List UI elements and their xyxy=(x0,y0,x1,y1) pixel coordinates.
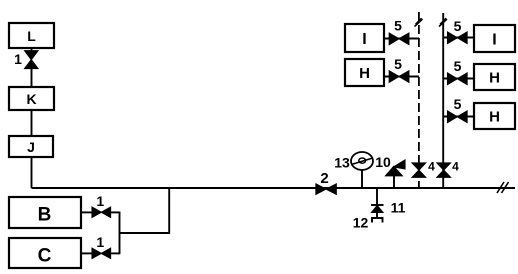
svg-text:B: B xyxy=(38,205,52,226)
box I (left column) xyxy=(345,24,384,52)
valve 5 (H right row 2) xyxy=(448,58,468,85)
drain funnel 12 xyxy=(353,215,383,231)
valve 1 (B outlet) xyxy=(92,193,111,217)
svg-text:1: 1 xyxy=(14,51,22,67)
svg-text:L: L xyxy=(27,28,36,44)
svg-text:I: I xyxy=(492,31,496,48)
box I (right column) xyxy=(474,25,515,52)
box L xyxy=(9,23,54,48)
box B xyxy=(9,197,81,228)
wire J down to header xyxy=(31,157,33,188)
valve 11 (drain valve) xyxy=(371,188,406,218)
valve 4 (dashed riser) xyxy=(412,160,435,178)
svg-text:H: H xyxy=(489,108,500,125)
wire solid riser to box I right xyxy=(443,37,474,39)
valve 1 (C outlet) xyxy=(92,234,111,259)
box H (left column) xyxy=(345,59,384,86)
wire valve B outlet to riser xyxy=(111,211,120,213)
valve 4 (solid riser) xyxy=(437,160,459,178)
svg-text:11: 11 xyxy=(391,200,406,216)
break mark on solid riser xyxy=(439,18,447,27)
svg-text:5: 5 xyxy=(454,96,462,112)
svg-text:2: 2 xyxy=(320,170,328,187)
wire solid riser to box H right row 2 xyxy=(443,78,474,80)
svg-text:1: 1 xyxy=(96,193,104,209)
wire L to valve 1 xyxy=(31,48,33,53)
svg-text:10: 10 xyxy=(375,154,391,170)
valve 5 (H left) xyxy=(389,56,409,82)
svg-text:H: H xyxy=(489,69,500,86)
valve 2 xyxy=(316,170,336,194)
svg-text:5: 5 xyxy=(394,56,402,72)
svg-text:K: K xyxy=(26,91,36,107)
valve 1 (below L) xyxy=(14,51,38,69)
wire B to valve xyxy=(81,211,92,213)
wire valve 1 to K xyxy=(31,69,33,87)
wire C to valve xyxy=(81,252,92,254)
wire valve C outlet to riser xyxy=(111,252,120,254)
svg-text:4: 4 xyxy=(428,160,435,174)
wire solid riser to box H right row 3 xyxy=(443,116,474,118)
break mark on main header xyxy=(497,182,509,193)
box K xyxy=(9,87,54,110)
main header pipe xyxy=(32,187,516,189)
valve 5 (I right) xyxy=(448,18,468,44)
solid riser xyxy=(442,13,444,188)
svg-text:I: I xyxy=(362,31,366,48)
valve 5 (H right row 3) xyxy=(448,96,468,123)
svg-text:13: 13 xyxy=(334,155,350,171)
svg-text:5: 5 xyxy=(454,58,462,74)
instrument 13 xyxy=(334,152,373,188)
wire box H left to dashed riser xyxy=(384,76,419,78)
box C xyxy=(9,238,81,268)
dashed riser xyxy=(418,12,420,188)
svg-text:5: 5 xyxy=(394,18,402,34)
svg-text:C: C xyxy=(38,246,52,267)
wire K to J xyxy=(31,110,33,136)
valve 10 (angle valve) xyxy=(375,154,405,188)
wire box I left to dashed riser xyxy=(384,38,419,40)
svg-text:1: 1 xyxy=(96,234,104,250)
box H (right column row 2) xyxy=(474,64,515,90)
box J xyxy=(9,136,53,157)
svg-text:5: 5 xyxy=(454,18,462,34)
svg-text:12: 12 xyxy=(353,215,369,231)
valve 5 (I left) xyxy=(389,18,409,45)
box H (right column row 3) xyxy=(474,103,515,129)
branch wire to header xyxy=(120,188,170,233)
riser joining B and C outlets xyxy=(119,212,121,255)
break mark on dashed riser xyxy=(415,18,423,27)
svg-text:J: J xyxy=(27,139,35,155)
svg-text:4: 4 xyxy=(452,160,459,174)
svg-text:H: H xyxy=(359,65,370,82)
